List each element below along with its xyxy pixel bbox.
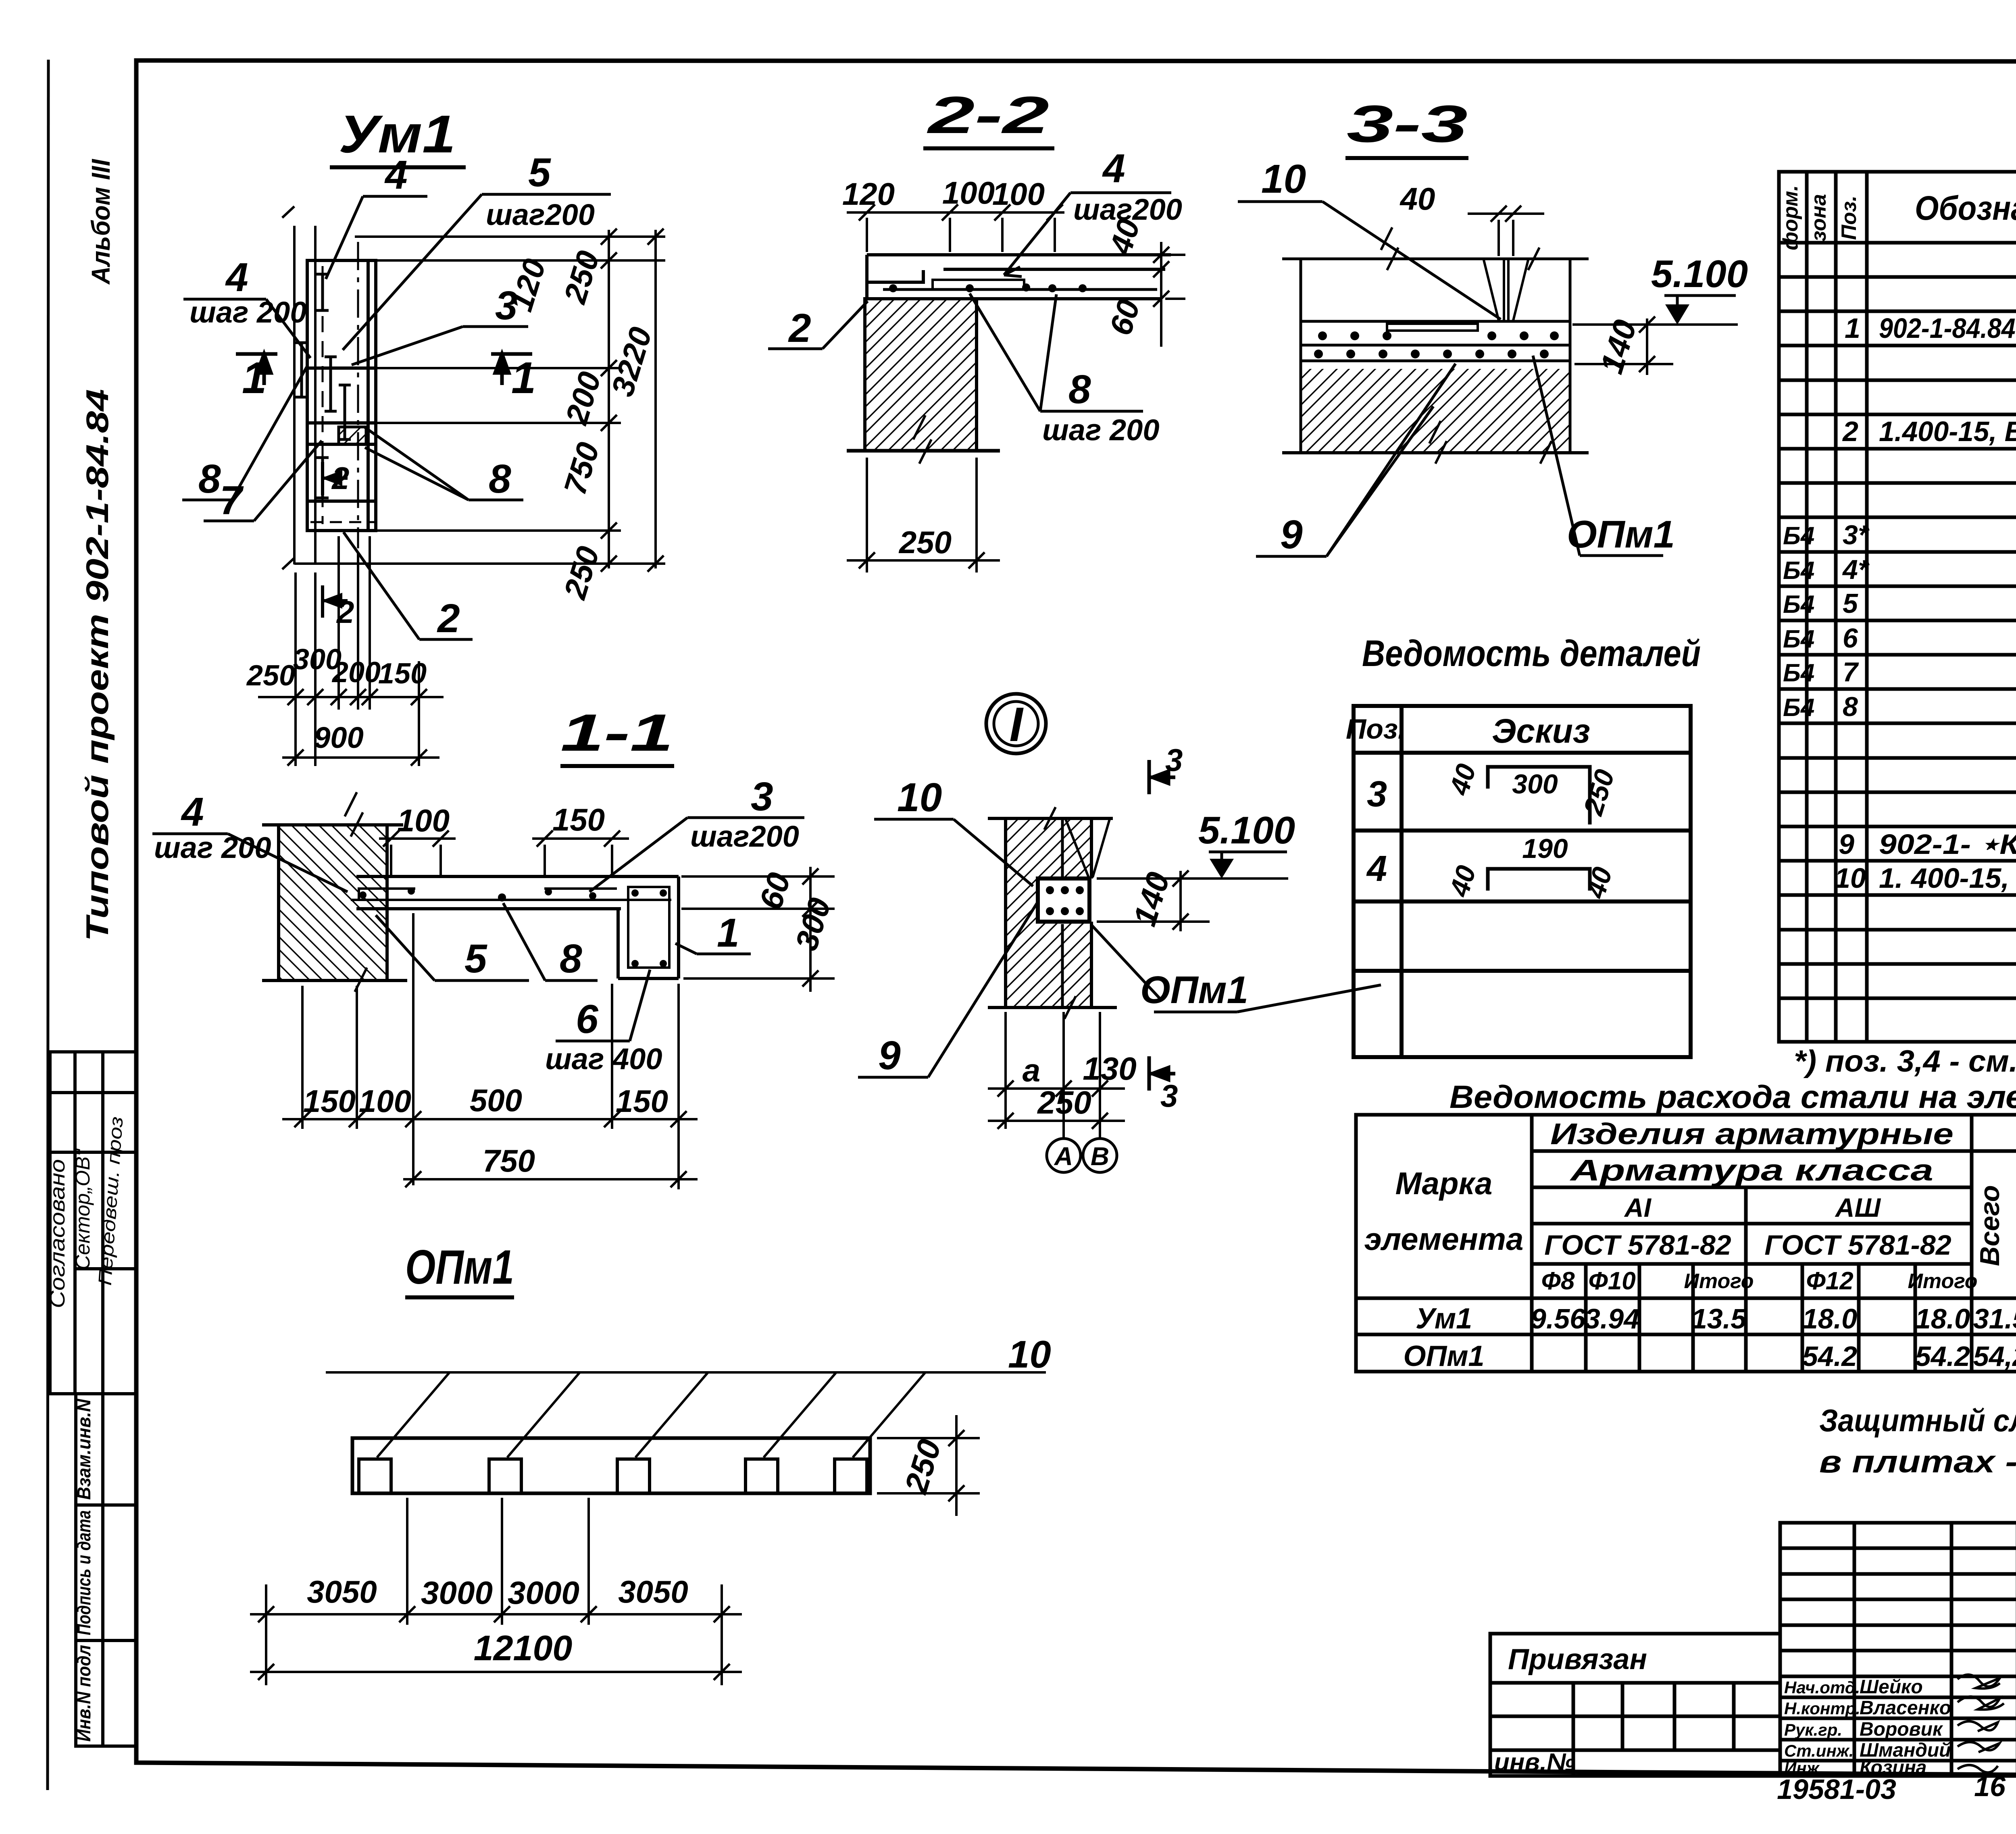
- svg-text:ОПм1: ОПм1: [405, 1240, 514, 1294]
- svg-text:10: 10: [1008, 1333, 1051, 1376]
- svg-text:6: 6: [576, 997, 599, 1042]
- svg-text:3000: 3000: [421, 1575, 493, 1611]
- svg-text:300: 300: [1512, 769, 1558, 799]
- svg-text:I: I: [1009, 697, 1024, 752]
- svg-text:Б4: Б4: [1783, 694, 1814, 722]
- svg-text:АI: АI: [1624, 1193, 1652, 1222]
- svg-text:7: 7: [220, 478, 244, 523]
- embedded plate Мн121-6 (detail I): [1038, 878, 1089, 922]
- svg-text:Б4: Б4: [1783, 659, 1814, 687]
- break marks 3-3: [1381, 227, 1552, 464]
- svg-text:Всего: Всего: [1974, 1185, 2005, 1266]
- svg-text:2: 2: [1842, 416, 1858, 447]
- Um1 right dimension chain: [294, 230, 665, 568]
- svg-text:3: 3: [751, 774, 773, 819]
- svg-text:100: 100: [992, 176, 1045, 212]
- rebar dots rows 3-3: [1314, 331, 1559, 358]
- rebar line 2-2: [883, 288, 1157, 291]
- svg-text:ОПм1: ОПм1: [1567, 513, 1675, 556]
- svg-text:*) поз. 3,4 - см. в ведомос: *) поз. 3,4 - см. в ведомости деталей: [1794, 1044, 2016, 1078]
- svg-text:8: 8: [489, 456, 511, 502]
- svg-text:шаг 400: шаг 400: [545, 1042, 662, 1076]
- svg-text:Привязан: Привязан: [1508, 1643, 1647, 1676]
- svg-text:1.400-15, Вып. 1: 1.400-15, Вып. 1: [1879, 416, 2016, 447]
- svg-text:Альбом III: Альбом III: [86, 159, 115, 285]
- svg-text:Ведомость расхода ст: Ведомость расхода стали на элемент, кг.: [1450, 1079, 2016, 1115]
- Um1 left extension lines: [282, 206, 315, 569]
- svg-text:2-2: 2-2: [926, 85, 1049, 144]
- svg-text:3-3: 3-3: [1347, 94, 1468, 153]
- node circle А: [1047, 1139, 1081, 1172]
- svg-text:элемента: элемента: [1364, 1221, 1524, 1257]
- svg-text:3000: 3000: [508, 1575, 579, 1611]
- svg-text:Арматура класса: Арматура класса: [1569, 1153, 1933, 1187]
- Um1 dashed rebar line: [322, 266, 324, 524]
- svg-text:120: 120: [842, 176, 895, 212]
- svg-text:Ф12: Ф12: [1806, 1267, 1853, 1295]
- dim 140 (3-3): [1574, 319, 1673, 375]
- node circle В: [1083, 1139, 1117, 1172]
- ОПм1 notches: [359, 1459, 867, 1493]
- svg-text:100: 100: [359, 1083, 411, 1119]
- rebar 1-1: [351, 887, 671, 968]
- svg-text:Сектор„ОВ": Сектор„ОВ": [71, 1148, 94, 1270]
- slab profile 2-2: [867, 255, 1171, 299]
- svg-text:АШ: АШ: [1835, 1193, 1881, 1222]
- svg-text:150: 150: [552, 802, 605, 837]
- svg-text:13.5: 13.5: [1691, 1303, 1747, 1334]
- svg-text:3.94: 3.94: [1585, 1303, 1639, 1334]
- svg-text:3: 3: [495, 283, 518, 328]
- middle signature strip: [1780, 1523, 2016, 1776]
- sidebar upper group box: [50, 1052, 136, 1394]
- svg-text:31.5: 31.5: [1973, 1303, 2016, 1334]
- svg-text:9: 9: [1280, 512, 1303, 557]
- svg-text:10: 10: [897, 775, 942, 820]
- svg-text:4: 4: [384, 152, 408, 198]
- circled I: [986, 694, 1046, 754]
- svg-text:Типовой проект 902-1-84.84: Типовой проект 902-1-84.84: [79, 389, 115, 941]
- svg-text:200: 200: [331, 656, 381, 689]
- svg-text:Эскиз: Эскиз: [1492, 712, 1590, 750]
- svg-text:150: 150: [616, 1083, 668, 1119]
- svg-text:5.100: 5.100: [1198, 809, 1295, 852]
- dim 40 (3-3): [1468, 214, 1544, 256]
- svg-text:9: 9: [878, 1033, 901, 1078]
- hatch 3-3: [1301, 369, 1570, 453]
- svg-text:750: 750: [483, 1143, 535, 1178]
- dim 140 (detail I): [1097, 871, 1210, 931]
- ОПм1 bar: [352, 1438, 870, 1493]
- steel table grid: [1356, 1115, 2016, 1372]
- Um1 axis dash-dot: [357, 242, 359, 548]
- svg-text:ОПм1: ОПм1: [1140, 968, 1248, 1012]
- svg-text:8: 8: [560, 936, 582, 981]
- leader 10 (ОПм1): [326, 1372, 1046, 1457]
- svg-text:150: 150: [378, 658, 427, 690]
- specification table grid: [1779, 172, 2016, 1042]
- svg-text:Ф10: Ф10: [1588, 1267, 1635, 1295]
- wall hatch 1-1: [279, 825, 387, 980]
- svg-text:3*: 3*: [1843, 520, 1870, 550]
- Um1 body outline: [307, 260, 376, 531]
- svg-text:Ум1: Ум1: [1416, 1303, 1472, 1335]
- top dims 1-1: [379, 839, 629, 875]
- svg-text:9: 9: [1839, 829, 1854, 860]
- svg-text:10: 10: [1835, 862, 1866, 894]
- svg-text:500: 500: [470, 1082, 522, 1118]
- svg-text:ГОСТ 5781-82: ГОСТ 5781-82: [1764, 1229, 1951, 1261]
- svg-text:4: 4: [1366, 849, 1387, 889]
- svg-text:Нач.отд.: Нач.отд.: [1784, 1678, 1860, 1697]
- svg-text:3: 3: [1165, 742, 1183, 778]
- svg-text:9.56: 9.56: [1531, 1303, 1586, 1334]
- svg-text:1: 1: [511, 353, 536, 403]
- signature scribbles: [1958, 1675, 2004, 1773]
- Um1 dashed bottom edge: [310, 521, 375, 523]
- svg-text:19581-03: 19581-03: [1777, 1774, 1896, 1805]
- svg-text:4: 4: [1102, 146, 1125, 191]
- svg-text:В: В: [1091, 1142, 1109, 1171]
- dim 250 (ОПм1): [877, 1415, 980, 1516]
- svg-text:Обозначение: Обозначение: [1915, 189, 2016, 227]
- svg-text:Подпись и дата: Подпись и дата: [73, 1510, 94, 1635]
- left attach table: [1490, 1634, 1780, 1776]
- svg-text:Инв.N подл: Инв.N подл: [73, 1645, 94, 1742]
- left trim line: [48, 60, 48, 1790]
- svg-text:Ст.инж.: Ст.инж.: [1784, 1741, 1854, 1760]
- svg-text:5: 5: [528, 150, 551, 195]
- svg-text:Марка: Марка: [1395, 1166, 1493, 1201]
- svg-text:16: 16: [1974, 1771, 2006, 1802]
- svg-text:100: 100: [942, 175, 995, 210]
- svg-text:Итого: Итого: [1684, 1270, 1754, 1293]
- svg-text:18.0: 18.0: [1915, 1303, 1970, 1334]
- svg-text:А: А: [1054, 1142, 1073, 1171]
- svg-text:Б4: Б4: [1783, 522, 1814, 550]
- right dims 60/300 (1-1): [681, 867, 835, 992]
- joint V-neck (detail I): [1066, 819, 1089, 877]
- slab 3-3 outline: [1282, 259, 1589, 453]
- slab 1-1: [356, 876, 679, 978]
- svg-text:54.2: 54.2: [1915, 1341, 1970, 1372]
- wall hatch 2-2: [865, 299, 977, 451]
- svg-text:8: 8: [1843, 691, 1858, 722]
- svg-text:зона: зона: [1807, 194, 1831, 241]
- bottom dims 1-1: [282, 913, 698, 1189]
- svg-text:3: 3: [1160, 1078, 1178, 1114]
- Um1 rebar bars: [296, 274, 351, 498]
- svg-text:Власенко: Власенко: [1860, 1697, 1951, 1719]
- svg-text:Б4: Б4: [1783, 591, 1814, 618]
- svg-text:шаг 200: шаг 200: [1042, 413, 1159, 447]
- inner wall joint line (detail I): [1061, 818, 1064, 877]
- svg-text:Согласовано: Согласовано: [46, 1159, 69, 1308]
- svg-text:Поз.: Поз.: [1837, 196, 1861, 240]
- svg-text:Шейко: Шейко: [1860, 1676, 1923, 1698]
- svg-text:Рук.гр.: Рук.гр.: [1784, 1720, 1842, 1739]
- svg-text:900: 900: [314, 721, 363, 754]
- dim 250 (2-2): [847, 458, 1000, 572]
- svg-text:18.0: 18.0: [1802, 1303, 1857, 1334]
- svg-text:Б4: Б4: [1783, 557, 1814, 585]
- dim 40/60 vertical (2-2): [1161, 242, 1185, 347]
- svg-text:а: а: [1023, 1052, 1041, 1088]
- svg-text:902-1- ⋆КЖи-С21: 902-1- ⋆КЖи-С21: [1879, 829, 2016, 860]
- Um1 bottom dimension chain: [258, 536, 444, 766]
- wall hatch (detail I): [1006, 818, 1091, 1008]
- svg-text:250: 250: [246, 660, 295, 692]
- svg-text:150: 150: [303, 1083, 356, 1119]
- svg-text:250: 250: [1037, 1085, 1091, 1120]
- svg-text:4: 4: [181, 789, 204, 835]
- svg-text:Воровик: Воровик: [1860, 1719, 1943, 1740]
- svg-text:1: 1: [717, 910, 739, 956]
- svg-text:2: 2: [788, 306, 811, 351]
- svg-text:Ф8: Ф8: [1541, 1267, 1575, 1295]
- svg-text:902-1-84.84 -КЖи-Кр18: 902-1-84.84 -КЖи-Кр18: [1879, 312, 2016, 344]
- svg-text:в плитах - 10 мм, балк: в плитах - 10 мм, балке - 20 мм.: [1819, 1444, 2016, 1479]
- svg-text:шаг200: шаг200: [690, 820, 799, 853]
- svg-text:54,2: 54,2: [1973, 1341, 2016, 1372]
- svg-text:инв.№: инв.№: [1494, 1749, 1575, 1776]
- joint funnel 3-3: [1484, 260, 1528, 321]
- svg-text:Н.контр.: Н.контр.: [1784, 1699, 1860, 1718]
- section mark 3 bottom (detail I): [1149, 1056, 1175, 1091]
- svg-text:1. 400-15, Вып 1: 1. 400-15, Вып 1: [1879, 862, 2016, 894]
- svg-text:4*: 4*: [1842, 554, 1870, 585]
- svg-text:1-1: 1-1: [560, 703, 673, 762]
- svg-text:10: 10: [1261, 156, 1306, 202]
- svg-text:Взам.инв.N: Взам.инв.N: [73, 1399, 94, 1500]
- ground line 2-2: [847, 449, 1000, 453]
- svg-text:1: 1: [1845, 312, 1860, 344]
- svg-text:3050: 3050: [307, 1574, 377, 1609]
- svg-text:Поз.: Поз.: [1346, 713, 1406, 745]
- svg-text:Итого: Итого: [1908, 1270, 1978, 1293]
- svg-text:Защитный слой бетона до: Защитный слой бетона до рабочей арматуры: [1819, 1403, 2016, 1438]
- svg-text:54.2: 54.2: [1802, 1341, 1857, 1372]
- svg-text:Ведомость деталей: Ведомость деталей: [1362, 633, 1701, 674]
- svg-text:6: 6: [1843, 623, 1858, 654]
- section mark 3 top (detail I): [1149, 760, 1175, 794]
- embedded plate Мн540 (3-3): [1387, 324, 1478, 331]
- bottom dims (ОПм1): [250, 1498, 742, 1685]
- svg-text:100: 100: [397, 803, 450, 838]
- top dims 2-2: [847, 212, 1064, 252]
- svg-text:ОПм1: ОПм1: [1403, 1340, 1484, 1372]
- svg-text:130: 130: [1083, 1051, 1136, 1087]
- svg-text:2: 2: [437, 596, 460, 641]
- svg-text:3: 3: [1367, 774, 1387, 814]
- svg-text:5.100: 5.100: [1651, 252, 1748, 296]
- svg-text:5: 5: [464, 936, 487, 981]
- svg-text:250: 250: [898, 525, 952, 560]
- svg-text:Б4: Б4: [1783, 625, 1814, 653]
- svg-text:12100: 12100: [474, 1628, 573, 1668]
- Um1 embedded plate hatch: [339, 427, 366, 444]
- svg-text:ГОСТ 5781-82: ГОСТ 5781-82: [1544, 1229, 1731, 1261]
- svg-text:8: 8: [1068, 367, 1091, 412]
- svg-text:7: 7: [1843, 657, 1859, 687]
- svg-text:Изделия арматурные: Изделия арматурные: [1550, 1117, 1954, 1151]
- svg-text:4: 4: [225, 255, 248, 300]
- svg-text:3050: 3050: [618, 1574, 688, 1609]
- svg-text:шаг200: шаг200: [486, 198, 595, 231]
- bottom dims (detail I): [988, 1012, 1125, 1138]
- svg-text:форм.: форм.: [1779, 185, 1802, 250]
- sidebar lower group box: [76, 1394, 136, 1746]
- svg-text:40: 40: [1400, 181, 1435, 216]
- svg-text:190: 190: [1522, 833, 1568, 864]
- svg-text:5: 5: [1843, 588, 1858, 619]
- svg-text:8: 8: [198, 456, 221, 502]
